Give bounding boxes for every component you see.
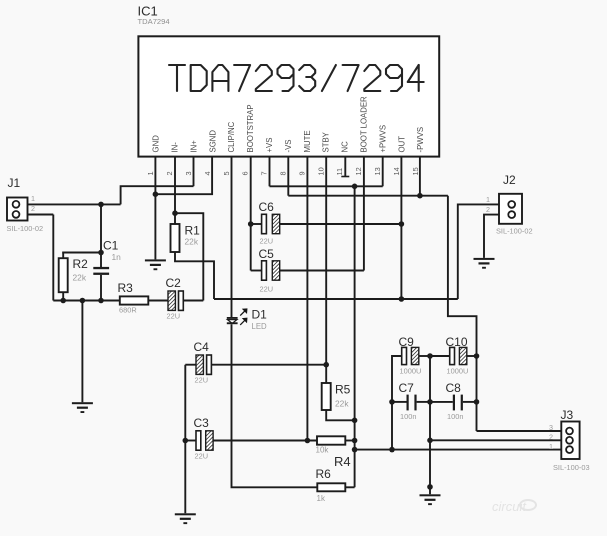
label 22U (C5 value) <box>260 285 274 294</box>
pin number 7 <box>260 171 269 175</box>
svg-text:SIL-100-03: SIL-100-03 <box>553 463 590 472</box>
wire C9 right <box>419 355 430 357</box>
wire pin3 IN+ stub <box>193 157 195 187</box>
label C5 <box>259 247 275 261</box>
label 22U (C3 value) <box>195 452 209 461</box>
svg-text:C4: C4 <box>194 340 210 354</box>
J3 pin 1 number <box>549 442 553 451</box>
svg-text:C7: C7 <box>399 381 415 395</box>
svg-text:2: 2 <box>486 205 490 214</box>
wire pin15 -PWVS stub <box>419 157 421 196</box>
label 680R (R3 value) <box>119 306 137 315</box>
wire -Vs jog down <box>448 196 477 431</box>
label C3 <box>194 416 210 430</box>
pin name label STBY (pin 10) <box>322 131 331 152</box>
svg-text:1: 1 <box>486 195 490 204</box>
wire -Vs to J3 pin3 <box>477 430 562 432</box>
svg-text:C3: C3 <box>194 416 210 430</box>
svg-text:8: 8 <box>279 171 288 175</box>
wire -Vs horizontal pin8 to corner <box>288 195 448 197</box>
ground symbol (power) <box>420 494 441 505</box>
svg-text:7: 7 <box>260 171 269 175</box>
junction dot -Vs at pin15 <box>417 193 423 199</box>
wire R3 to C2 <box>148 300 168 302</box>
pin number 3 <box>184 171 193 175</box>
pin number 4 <box>203 171 212 175</box>
wire pin4 SGND stub <box>155 157 212 195</box>
wire pin8 -VS stub <box>287 157 289 196</box>
label C9 <box>399 335 415 349</box>
resistor R3 body <box>120 296 149 304</box>
label J1 <box>8 176 21 190</box>
pin number 2 <box>165 171 174 175</box>
junction dot R5/+Vs <box>352 418 358 424</box>
label SIL-100-02 (J1 value) <box>7 224 44 233</box>
label R5 <box>335 383 351 397</box>
resistor R6 body <box>317 483 345 491</box>
pin number 10 <box>316 167 325 175</box>
svg-text:J2: J2 <box>503 173 516 187</box>
label R2 <box>73 257 89 271</box>
svg-text:1k: 1k <box>317 494 326 503</box>
wire +Vs to J3 pin1 <box>355 449 562 451</box>
svg-text:SIL-100-02: SIL-100-02 <box>7 224 44 233</box>
junction dot GND/J3 branch <box>427 438 433 444</box>
svg-text:2: 2 <box>31 204 35 213</box>
label TDA7294 (IC1 value) <box>138 17 170 26</box>
svg-text:D1: D1 <box>252 308 268 322</box>
J3 pin 3 number <box>549 423 553 432</box>
svg-text:5: 5 <box>222 171 231 175</box>
label C8 <box>446 381 462 395</box>
wire pin12 BOOT LOADER down <box>363 157 365 271</box>
svg-text:R4: R4 <box>334 454 351 469</box>
svg-text:1: 1 <box>549 442 553 451</box>
resistor R4 body <box>317 436 345 444</box>
wire C3 left <box>185 440 196 442</box>
svg-text:11: 11 <box>335 168 344 176</box>
J1 pin 2 number <box>31 204 35 213</box>
svg-text:IN-: IN- <box>171 142 180 153</box>
capacitor C3 (22u electrolytic) <box>196 431 213 450</box>
resistor R1 body <box>171 224 180 252</box>
label C4 <box>194 340 210 354</box>
pin number 11 <box>335 168 344 176</box>
svg-text:R2: R2 <box>73 257 89 271</box>
wire R5 bottom to +Vs <box>326 410 354 420</box>
svg-text:10k: 10k <box>316 446 330 455</box>
wire pin1 GND down <box>154 157 156 260</box>
ground symbol (pin1 SGND) <box>145 259 166 270</box>
label 100n (C7 value) <box>400 412 416 421</box>
pin name label BOOTSTRAP (pin 6) <box>246 104 255 152</box>
svg-text:1000U: 1000U <box>400 367 422 376</box>
wire pin2 IN- down to R1 <box>174 157 176 224</box>
label 100n (C8 value) <box>447 412 463 421</box>
svg-text:GND: GND <box>152 135 161 153</box>
label C1 <box>103 239 119 253</box>
wire J1.1 to node IN+ (horizontal) <box>28 203 121 205</box>
diode D1 LED anode bar <box>227 317 238 319</box>
svg-text:2: 2 <box>549 433 553 442</box>
svg-text:C1: C1 <box>103 239 119 253</box>
svg-text:R6: R6 <box>316 467 332 481</box>
pin name label +VS (pin 7) <box>265 138 274 153</box>
junction dot mid rail top <box>427 353 433 359</box>
J1 pin 1 number <box>31 194 35 203</box>
wire R6 right to +Vs drop <box>345 486 354 488</box>
connector J1 body <box>7 198 28 221</box>
diode D1 LED arrows <box>240 309 247 325</box>
junction dot +rail bottom <box>389 447 395 453</box>
J3 pin 3 pad <box>566 428 573 435</box>
label SIL-100-02 (J2 value) <box>496 227 533 236</box>
wire C4 left <box>185 364 196 366</box>
junction dot C6 left <box>248 221 254 227</box>
wire R2 top horizontal <box>62 252 101 254</box>
wire pin6 BOOTSTRAP down <box>250 157 252 271</box>
junction dot C7 left <box>389 399 395 405</box>
svg-text:CLIP/NC: CLIP/NC <box>227 121 236 152</box>
svg-text:4: 4 <box>203 171 212 175</box>
svg-text:22k: 22k <box>73 273 87 283</box>
svg-text:J1: J1 <box>8 176 21 190</box>
capacitor C2 (22u electrolytic) <box>168 291 183 310</box>
pin name label CLIP/NC (pin 5) <box>227 121 236 152</box>
svg-text:14: 14 <box>392 167 401 175</box>
wire pin14 OUT down <box>400 157 402 299</box>
svg-text:100n: 100n <box>400 412 416 421</box>
wire C5 right to pin12 <box>280 270 364 272</box>
ground symbol (input) <box>72 402 93 413</box>
svg-text:100n: 100n <box>447 412 463 421</box>
svg-text:OUT: OUT <box>397 136 406 153</box>
wire + filter rail (C9/C7 left) <box>392 356 402 450</box>
pin name label OUT (pin 14) <box>397 136 406 153</box>
label 1000U (C9 value) <box>400 367 422 376</box>
wire pin9 MUTE down <box>306 157 308 441</box>
svg-text:C5: C5 <box>259 247 275 261</box>
label R3 <box>118 281 134 295</box>
pin name label -PWVS (pin 15) <box>416 127 425 153</box>
pin name label BOOT LOADER (pin 12) <box>360 96 369 153</box>
label J2 <box>503 173 516 187</box>
svg-text:22k: 22k <box>185 237 199 247</box>
label 1000U (C10 value) <box>447 367 469 376</box>
wire GND mid rail <box>429 356 431 494</box>
junction dot node IN+ / C1 <box>98 202 104 208</box>
J3 pin 2 pad <box>566 437 573 444</box>
pin name label IN+ (pin 3) <box>189 140 198 153</box>
svg-text:6: 6 <box>241 171 250 175</box>
svg-text:IN+: IN+ <box>189 140 198 153</box>
junction dot C3 left <box>183 438 189 444</box>
wire J1.1 riser <box>121 186 194 204</box>
svg-text:3: 3 <box>549 423 553 432</box>
wire C1 top branch <box>100 204 102 267</box>
wire R2 bottom stub <box>62 292 64 300</box>
capacitor C7 plates (100n) <box>407 395 417 411</box>
svg-text:22U: 22U <box>195 376 209 385</box>
J3 pin 2 number <box>549 433 553 442</box>
wire +Vs vertical drop <box>354 186 356 487</box>
junction dot +Vs branch <box>352 184 358 190</box>
capacitor C5 (22u electrolytic) <box>262 261 280 280</box>
svg-text:STBY: STBY <box>322 131 331 152</box>
svg-text:TDA7294: TDA7294 <box>138 17 170 26</box>
wire J2.2 to ground <box>484 215 499 258</box>
connector J3 body <box>561 422 579 460</box>
pin number 8 <box>279 171 288 175</box>
junction dot GND rail lower <box>427 484 433 490</box>
svg-text:-PWVS: -PWVS <box>416 127 425 153</box>
junction dot C7/C8 mid <box>427 399 433 405</box>
pin number 13 <box>373 167 382 175</box>
wire C6 left <box>251 223 262 225</box>
wire C7 left <box>392 401 407 403</box>
svg-text:R5: R5 <box>335 383 351 397</box>
junction dot C8/-Vs <box>474 399 480 405</box>
pin number 12 <box>354 167 363 175</box>
svg-text:R1: R1 <box>185 224 201 238</box>
capacitor C10 (1000u electrolytic) <box>450 347 467 364</box>
svg-text:22k: 22k <box>335 399 349 409</box>
svg-text:SGND: SGND <box>208 130 217 153</box>
junction dot C6/pin14 <box>399 221 405 227</box>
wire pin5 CLIP down <box>231 157 233 318</box>
svg-text:SIL-100-02: SIL-100-02 <box>496 227 533 236</box>
wire pin13 +PWVS stub <box>382 157 384 187</box>
capacitor C1 plates <box>93 267 109 275</box>
J2 pin 1 pad <box>508 201 515 208</box>
svg-text:BOOTSTRAP: BOOTSTRAP <box>246 104 255 152</box>
capacitor C6 (22u electrolytic) <box>262 214 280 233</box>
pin name label +PWVS (pin 13) <box>378 125 387 153</box>
label 22U (C2 value) <box>167 312 181 321</box>
wire D1 down to R6 <box>232 324 318 487</box>
label SIL-100-03 (J3 value) <box>553 463 590 472</box>
pin name label NC (pin 11) <box>341 141 350 153</box>
svg-text:C9: C9 <box>399 335 415 349</box>
label 1k (R6 value) <box>317 494 326 503</box>
J1 pin 2 pad <box>13 211 20 218</box>
wire C7 right <box>417 401 430 403</box>
wire pin10 STBY down <box>325 157 327 383</box>
label IC1 <box>138 4 158 19</box>
wire C10 right <box>467 355 476 357</box>
junction dot +Vs to J3 corner <box>352 447 358 453</box>
resistor R2 body <box>59 258 68 292</box>
label R6 <box>316 467 332 481</box>
label 1n (C1 value) <box>112 252 122 262</box>
wire pin7 +VS stub <box>269 157 271 187</box>
svg-text:680R: 680R <box>119 306 137 315</box>
label 22k (R1 value) <box>185 237 199 247</box>
wire C6 right to pin14 <box>280 223 402 225</box>
wire J1.2 riser down <box>52 215 54 301</box>
svg-text:15: 15 <box>411 167 420 175</box>
label C10 <box>446 335 468 349</box>
svg-text:BOOT LOADER: BOOT LOADER <box>360 96 369 153</box>
junction dot C4/STBY <box>323 362 329 368</box>
svg-text:22U: 22U <box>260 285 274 294</box>
ground symbol (C4/C3) <box>175 513 196 524</box>
J2 pin 2 pad <box>508 211 515 218</box>
wire C4/C3 gnd vertical <box>184 365 186 514</box>
wire J1.2 horizontal <box>28 214 54 216</box>
pin name label MUTE (pin 9) <box>303 130 312 152</box>
junction dot OUT at pin14 <box>399 296 405 302</box>
svg-text:3: 3 <box>184 171 193 175</box>
svg-text:9: 9 <box>297 171 306 175</box>
capacitor C4 (22u electrolytic) <box>196 355 211 374</box>
junction dot C1 bottom <box>98 298 104 304</box>
label C2 <box>166 276 182 290</box>
wire OUT net horizontal <box>214 298 458 300</box>
IC1 title text TDA7293/7294 (stroke font) <box>169 65 424 91</box>
pin number 14 <box>392 167 401 175</box>
wire pin11 NC stub (open) <box>341 157 349 177</box>
wire R1 bottom to OUT net <box>175 252 214 299</box>
diode D1 LED cathode bar <box>227 322 238 324</box>
wire GND to J3 pin2 <box>430 439 561 441</box>
J3 pin 1 pad <box>566 446 573 453</box>
label C7 <box>399 381 415 395</box>
svg-text:2: 2 <box>165 171 174 175</box>
connector J2 body <box>499 194 522 224</box>
wire C2 right <box>183 300 203 302</box>
svg-text:J3: J3 <box>561 408 574 422</box>
svg-text:C10: C10 <box>446 335 468 349</box>
svg-text:10: 10 <box>316 167 325 175</box>
svg-text:13: 13 <box>373 167 382 175</box>
wire C1 bottom <box>100 275 102 301</box>
wire ground drop from input rail <box>81 301 83 403</box>
J2 pin 1 number <box>486 195 490 204</box>
label R1 <box>185 224 201 238</box>
junction dot IN- node <box>172 210 178 216</box>
pin number 5 <box>222 171 231 175</box>
diode D1 LED triangle <box>227 320 237 324</box>
svg-text:22U: 22U <box>167 312 181 321</box>
svg-text:LED: LED <box>252 322 268 331</box>
junction dot C1/R2 top <box>98 250 104 256</box>
junction dot R2 bottom <box>60 298 66 304</box>
wire R2 top stub <box>62 253 64 259</box>
wire +Vs horizontal pin7 to pin13 <box>270 185 383 187</box>
wire C8 left <box>430 401 453 403</box>
svg-text:NC: NC <box>341 141 350 153</box>
resistor R5 body <box>322 383 331 410</box>
ground symbol (J2) <box>474 258 495 269</box>
label 22k (R2 value) <box>73 273 87 283</box>
wire C4 right to STBY <box>212 364 327 366</box>
junction dot ground branch <box>80 298 86 304</box>
label 22k (R5 value) <box>335 399 349 409</box>
pin name label -VS (pin 8) <box>284 140 293 153</box>
label 10k (R4 value) <box>316 446 330 455</box>
svg-text:1000U: 1000U <box>447 367 469 376</box>
J1 pin 1 pad <box>13 201 20 208</box>
svg-text:+VS: +VS <box>265 138 274 153</box>
wire C2 riser to IN- <box>176 213 203 300</box>
svg-text:22U: 22U <box>195 452 209 461</box>
junction dot pin1/pin4 <box>153 191 159 197</box>
svg-text:R3: R3 <box>118 281 134 295</box>
svg-text:1n: 1n <box>112 252 122 262</box>
pin number 1 <box>146 171 155 175</box>
capacitor C9 (1000u electrolytic) <box>402 347 419 364</box>
wire input ground rail <box>53 300 120 302</box>
svg-text:+PWVS: +PWVS <box>378 125 387 153</box>
label R4 <box>334 454 351 469</box>
label 22U (C4 value) <box>195 376 209 385</box>
pin name label IN- (pin 2) <box>171 142 180 153</box>
svg-text:12: 12 <box>354 167 363 175</box>
svg-text:MUTE: MUTE <box>303 130 312 152</box>
svg-text:C8: C8 <box>446 381 462 395</box>
junction dot MUTE node <box>305 438 311 444</box>
wire C8 right <box>463 401 477 403</box>
label LED (D1 value) <box>252 322 268 331</box>
J2 pin 2 number <box>486 205 490 214</box>
svg-text:1: 1 <box>146 171 155 175</box>
wire C10 left <box>430 355 450 357</box>
wire R4 right to +Vs <box>345 440 354 442</box>
label 22U (C6 value) <box>260 237 274 246</box>
label J3 <box>561 408 574 422</box>
junction dot R4/+Vs <box>352 438 358 444</box>
wire C3 right to MUTE node <box>213 440 317 442</box>
svg-text:22U: 22U <box>260 237 274 246</box>
pin name label SGND (pin 4) <box>208 130 217 153</box>
op-amp IC U/IC1 TDA7293/7294 body <box>138 36 439 156</box>
label D1 <box>252 308 268 322</box>
svg-text:C2: C2 <box>166 276 182 290</box>
svg-text:1: 1 <box>31 194 35 203</box>
junction dot C10/-Vs <box>474 353 480 359</box>
pin number 6 <box>241 171 250 175</box>
wire C5 left <box>251 270 262 272</box>
label C6 <box>259 200 275 214</box>
wire OUT riser to J2.1 <box>458 204 499 299</box>
capacitor C8 plates (100n) <box>453 395 463 411</box>
pin number 15 <box>411 167 420 175</box>
pin number 9 <box>297 171 306 175</box>
pin name label GND (pin 1) <box>152 135 161 153</box>
watermark <box>492 499 536 514</box>
svg-text:C6: C6 <box>259 200 275 214</box>
svg-text:-VS: -VS <box>284 140 293 153</box>
